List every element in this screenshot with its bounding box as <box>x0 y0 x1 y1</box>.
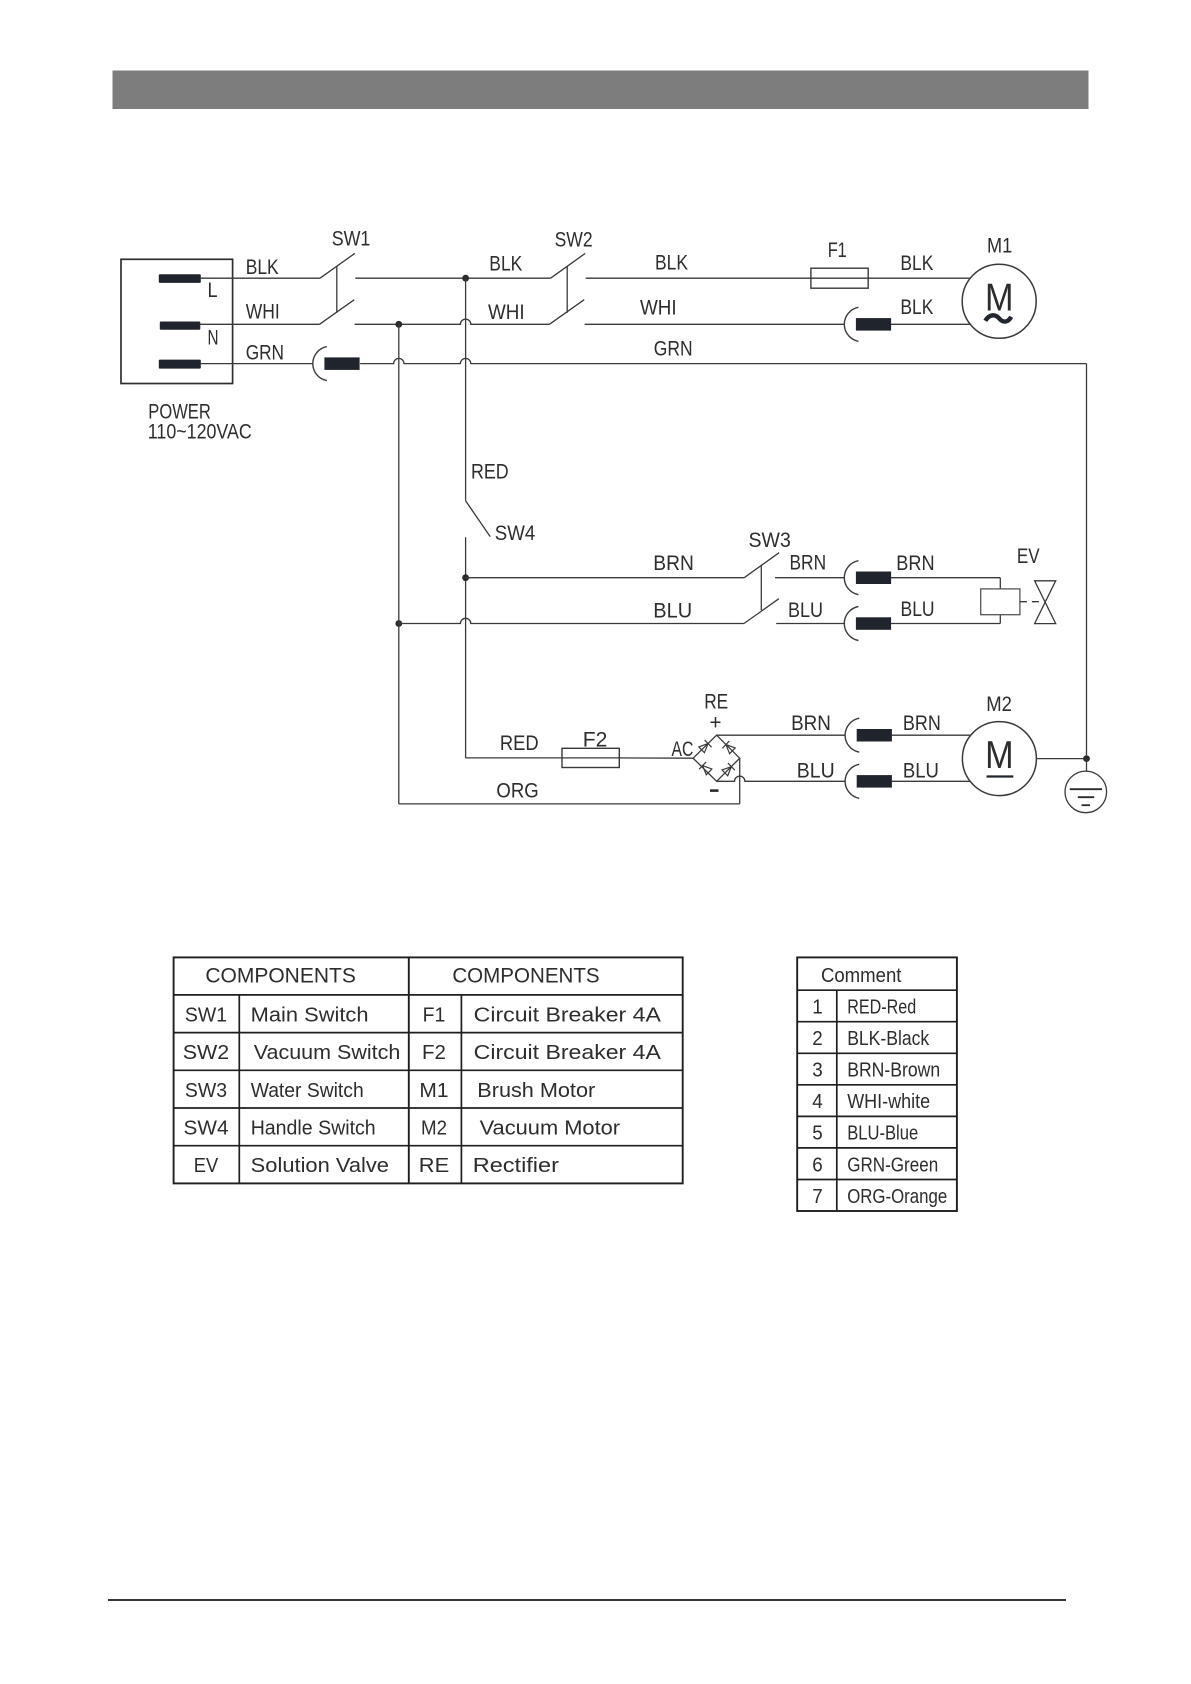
connector GRN lead <box>313 347 327 381</box>
svg-text:110~120VAC: 110~120VAC <box>148 421 252 444</box>
components table frame <box>174 957 683 1183</box>
svg-text:SW2: SW2 <box>555 228 593 251</box>
node BLK junction <box>462 275 469 282</box>
diode D2 (upper-right edge) <box>722 741 735 754</box>
fuse F1 Circuit Breaker <box>811 268 868 288</box>
svg-text:BLU: BLU <box>901 598 935 621</box>
svg-text:BLK: BLK <box>900 252 933 275</box>
svg-text:BRN: BRN <box>896 552 934 575</box>
wire BRN connector to EV <box>891 577 1000 579</box>
wire BLK connector to M1 <box>891 323 971 325</box>
svg-text:EV: EV <box>1017 545 1040 568</box>
svg-text:BLU: BLU <box>903 760 939 783</box>
wire ORG bottom <box>399 803 740 805</box>
svg-text:M2: M2 <box>421 1116 447 1139</box>
svg-text:BLK-Black: BLK-Black <box>847 1027 930 1050</box>
svg-text:BLU-Blue: BLU-Blue <box>847 1122 918 1145</box>
ground (protective earth) <box>1065 771 1107 813</box>
wire BLU to SW3 <box>399 618 744 623</box>
svg-text:RE: RE <box>704 690 728 713</box>
wire BRN SW3 to connector <box>775 577 844 579</box>
svg-text:EV: EV <box>194 1154 219 1177</box>
svg-text:RED-Red: RED-Red <box>847 996 916 1019</box>
wire down to ground <box>1086 759 1088 790</box>
bottom rule <box>108 1599 1066 1601</box>
wire left vertical WHI to ORG <box>398 324 400 804</box>
svg-text:COMPONENTS: COMPONENTS <box>452 965 599 988</box>
plug prong L <box>159 274 201 283</box>
wire BLK F1 to M1 <box>868 277 970 279</box>
svg-text:WHI: WHI <box>640 297 677 320</box>
svg-text:BRN-Brown: BRN-Brown <box>847 1059 940 1082</box>
diode D1 (upper-left edge) <box>698 740 711 753</box>
switch SW4 <box>466 501 491 537</box>
motor M1 brush motor <box>962 264 1036 338</box>
wire GRN down right side <box>1086 364 1088 756</box>
svg-text:6: 6 <box>812 1153 823 1176</box>
svg-text:+: + <box>710 712 722 735</box>
switch SW3 <box>744 553 779 578</box>
connector EV BLU lead <box>844 607 858 641</box>
motor M2 vacuum motor <box>962 722 1036 796</box>
svg-text:RE: RE <box>419 1154 449 1177</box>
svg-text:WHI-white: WHI-white <box>847 1090 930 1113</box>
connector M1 lower lead <box>844 307 858 341</box>
svg-text:GRN: GRN <box>246 342 284 365</box>
svg-text:Main Switch: Main Switch <box>251 1003 369 1026</box>
comment table frame <box>797 957 957 1211</box>
svg-text:2: 2 <box>812 1027 823 1050</box>
svg-text:SW4: SW4 <box>495 522 536 545</box>
svg-text:M: M <box>985 277 1014 320</box>
svg-text:Water Switch: Water Switch <box>251 1079 364 1102</box>
svg-text:7: 7 <box>812 1185 823 1208</box>
wire WHI SW1 to SW2 <box>355 319 550 324</box>
svg-text:Solution Valve: Solution Valve <box>251 1154 389 1177</box>
wire BLK plug to SW1 <box>200 277 320 279</box>
svg-text:Handle Switch: Handle Switch <box>251 1116 376 1139</box>
wire BLK SW2 to F1 <box>586 277 811 279</box>
diode D3 (lower-left edge) <box>699 762 712 775</box>
svg-text:F2: F2 <box>422 1041 446 1064</box>
svg-text:F1: F1 <box>423 1003 446 1026</box>
wire BLU rectifier to connector <box>717 776 846 781</box>
svg-text:4: 4 <box>812 1090 823 1113</box>
label minus <box>710 789 719 792</box>
svg-text:Vacuum Motor: Vacuum Motor <box>480 1116 621 1139</box>
svg-text:F2: F2 <box>583 729 608 752</box>
wire BLK SW1 to SW2 <box>355 277 550 279</box>
EV valve body <box>1035 581 1056 624</box>
svg-text:COMPONENTS: COMPONENTS <box>205 965 356 988</box>
components table column lines <box>408 957 410 1183</box>
wire RED F2 to rectifier <box>619 757 693 759</box>
EV dashed link <box>1020 601 1041 603</box>
svg-text:SW3: SW3 <box>185 1079 227 1102</box>
wire RED SW4 down to corner <box>465 537 467 758</box>
wire GRN plug to connector <box>200 363 313 365</box>
svg-text:N: N <box>208 327 219 350</box>
svg-text:WHI: WHI <box>488 301 525 324</box>
svg-text:BRN: BRN <box>790 551 827 574</box>
svg-text:BRN: BRN <box>903 712 941 735</box>
svg-text:M: M <box>985 734 1014 777</box>
wire BRN connector to M2 <box>892 734 971 736</box>
svg-text:BLU: BLU <box>788 599 823 622</box>
svg-text:GRN-Green: GRN-Green <box>847 1153 938 1176</box>
svg-text:ORG-Orange: ORG-Orange <box>847 1185 947 1208</box>
svg-text:BLU: BLU <box>797 760 835 783</box>
svg-text:5: 5 <box>812 1122 823 1145</box>
svg-text:F1: F1 <box>828 239 847 262</box>
comment table column line <box>836 990 838 1211</box>
svg-text:M2: M2 <box>986 693 1012 716</box>
wire BLU connector to M2 <box>892 780 971 782</box>
svg-text:GRN: GRN <box>654 338 693 361</box>
svg-text:BLK: BLK <box>655 252 688 275</box>
connector M2 BRN lead <box>845 718 859 752</box>
connector M2 BLU lead <box>845 764 859 798</box>
svg-text:Circuit Breaker 4A: Circuit Breaker 4A <box>474 1003 662 1026</box>
svg-text:SW2: SW2 <box>183 1041 230 1064</box>
wire BRN to SW3 <box>466 577 745 579</box>
svg-text:Vacuum Switch: Vacuum Switch <box>254 1041 400 1064</box>
svg-text:L: L <box>208 279 218 302</box>
fuse F2 Circuit Breaker <box>562 748 619 767</box>
wire GRN across page <box>360 358 1086 363</box>
wire BLU connector to EV <box>891 623 1000 625</box>
svg-text:AC: AC <box>672 738 694 761</box>
svg-text:SW3: SW3 <box>749 529 791 552</box>
plug prong GND <box>159 360 201 369</box>
svg-text:RED: RED <box>500 732 539 755</box>
comment table row lines <box>797 1021 957 1023</box>
wire BRN rectifier to connector <box>717 734 846 736</box>
wire RED corner to F2 <box>466 757 562 759</box>
svg-text:M1: M1 <box>419 1079 448 1102</box>
svg-text:RED: RED <box>471 460 509 483</box>
wire WHI SW2 to connector <box>585 323 845 325</box>
svg-text:BRN: BRN <box>791 712 831 735</box>
comment table header row line <box>797 989 957 991</box>
diode D4 (lower-right edge) <box>721 763 734 776</box>
svg-text:M1: M1 <box>987 234 1012 257</box>
plug prong N <box>160 322 201 330</box>
svg-text:SW1: SW1 <box>332 227 371 250</box>
svg-text:BLK: BLK <box>246 256 279 279</box>
node WHI junction <box>395 321 402 328</box>
svg-text:3: 3 <box>812 1059 823 1082</box>
svg-text:BRN: BRN <box>653 552 694 575</box>
wire RED down to SW4 <box>465 278 467 501</box>
svg-text:BLK: BLK <box>900 296 933 319</box>
power plug POWER 110~120VAC <box>121 259 233 383</box>
svg-text:1: 1 <box>812 996 823 1019</box>
connector EV BRN lead <box>844 561 858 595</box>
header gray bar <box>113 71 1089 110</box>
wire M2 to ground node <box>1036 758 1086 760</box>
wire BLU SW3 to connector <box>776 623 844 625</box>
svg-text:WHI: WHI <box>246 300 280 323</box>
node BLU junction on left line <box>395 620 402 627</box>
svg-text:BLK: BLK <box>489 253 522 276</box>
node BRN junction on RED line <box>462 574 469 581</box>
wire ORG up to rectifier <box>739 758 741 804</box>
svg-text:ORG: ORG <box>496 780 538 803</box>
node ground junction <box>1083 755 1090 762</box>
svg-text:Circuit Breaker 4A: Circuit Breaker 4A <box>474 1041 662 1064</box>
svg-text:Rectifier: Rectifier <box>473 1154 559 1177</box>
solution valve EV coil <box>981 589 1020 615</box>
svg-text:Brush Motor: Brush Motor <box>477 1079 595 1102</box>
switch SW1 <box>320 253 355 278</box>
svg-text:SW4: SW4 <box>184 1116 229 1139</box>
switch SW2 <box>551 253 586 278</box>
rectifier RE bridge diamond <box>693 735 740 781</box>
svg-text:SW1: SW1 <box>185 1003 227 1026</box>
wire WHI plug to SW1 <box>200 323 320 325</box>
svg-text:Comment: Comment <box>821 964 902 987</box>
components table row lines <box>174 994 683 996</box>
svg-text:BLU: BLU <box>653 600 692 623</box>
